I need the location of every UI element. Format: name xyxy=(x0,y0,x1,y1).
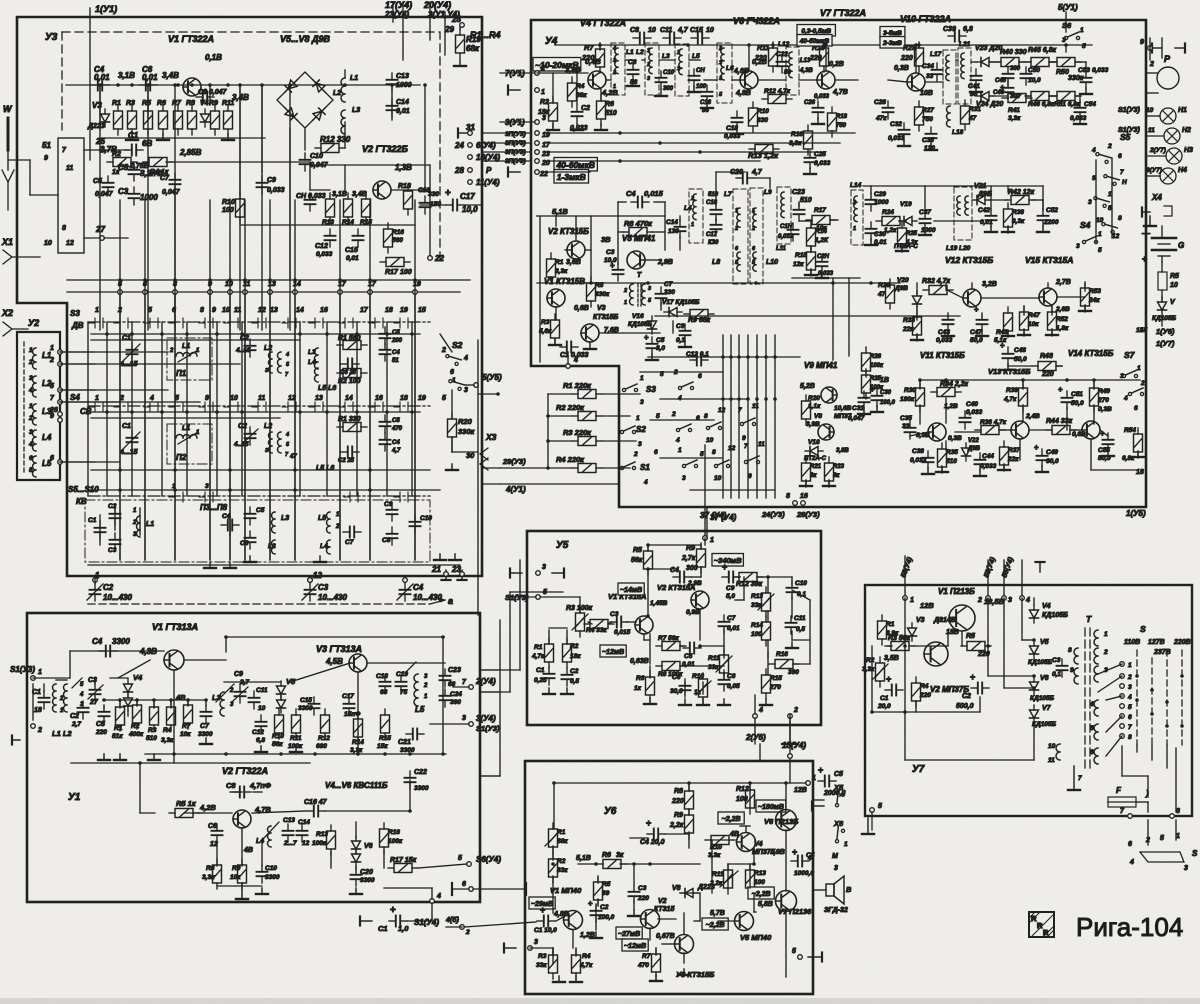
U3 verticals upper xyxy=(100,85,425,280)
res R52 1,8k xyxy=(1048,306,1071,336)
label V2 MP37B xyxy=(930,685,969,694)
coil L1 P1 xyxy=(169,343,200,362)
diode V6 pair xyxy=(352,836,373,867)
res R30 180k xyxy=(900,382,925,412)
res R4 220 U7 xyxy=(912,677,932,707)
label 4(U1) xyxy=(500,484,619,494)
cap C4 20,0 xyxy=(640,818,665,846)
transistor V5 xyxy=(735,912,754,931)
label V15 KT315A xyxy=(1025,255,1073,265)
terminal 7(U1) xyxy=(500,65,545,78)
V18 PTE2A-C cluster xyxy=(802,439,850,487)
label R1..R4 xyxy=(451,15,501,40)
cap C10 0,1 xyxy=(787,580,808,599)
label S1(U3) 11 xyxy=(1118,127,1141,134)
meter P xyxy=(1146,54,1179,89)
res R8 470k xyxy=(623,219,653,237)
variable capacitor С2 10..430 xyxy=(87,576,132,602)
switch S4 U4 xyxy=(1076,220,1102,254)
capacitor C9 0,033 xyxy=(257,176,285,194)
wire 2(U6) down xyxy=(759,744,761,761)
capacitor C3 1000 xyxy=(118,187,158,205)
label 1,2B xyxy=(944,403,958,410)
res R4 33k xyxy=(584,620,614,635)
label 3(U1,U4) xyxy=(428,10,460,55)
U7 label xyxy=(912,764,925,775)
cap C3 0,015 xyxy=(610,611,631,636)
label 0,4V xyxy=(585,57,601,66)
diode V19 xyxy=(899,217,917,226)
coil L5 P3 xyxy=(318,512,340,554)
label V1 MP40 xyxy=(550,886,582,895)
terminal 4 bottom xyxy=(430,888,441,903)
cap C8 10 xyxy=(630,27,656,44)
res R6 510 xyxy=(597,95,617,125)
wire 37(U4) down xyxy=(705,445,737,522)
transistor V4 U4 xyxy=(588,71,606,89)
label 0,67V xyxy=(656,933,675,940)
diode V4 KD105B xyxy=(1030,603,1069,623)
res R13 100k xyxy=(312,825,336,855)
coil L1 L2 L3 right xyxy=(333,70,360,134)
res R2 33k xyxy=(549,853,569,883)
cap C42 0,01 xyxy=(978,207,997,227)
label V1 GT313A xyxy=(152,622,198,632)
label V4..V6 KVS111B xyxy=(325,781,388,790)
label 2,85V xyxy=(179,148,202,157)
res R15 12k xyxy=(793,246,816,276)
trimmer C3 27 xyxy=(88,677,103,706)
res R11 220 xyxy=(754,42,778,72)
U1 c4 bus xyxy=(33,651,164,678)
cap C9 0,1 xyxy=(676,323,691,344)
diode V23 D20 xyxy=(975,45,1002,67)
variable capacitor С4 10..430 xyxy=(397,576,442,602)
boxed ~14mV xyxy=(618,583,644,595)
res R32 4,7k xyxy=(922,278,953,295)
label V7 GT322A xyxy=(820,8,866,18)
cap C43 0,033 xyxy=(936,313,954,344)
res R8 220 xyxy=(671,785,694,815)
IF transformer L1 L2 xyxy=(611,43,644,95)
wire gutter row 19 xyxy=(482,132,531,134)
res R45 6,8k xyxy=(1025,47,1057,67)
label 15(U4) xyxy=(782,714,806,761)
trim cap C9 2,7 xyxy=(233,671,249,703)
label 4,2V xyxy=(199,803,216,812)
res R9 2,7k xyxy=(681,543,706,573)
transistor V3 U4 xyxy=(581,324,619,342)
coil L1 P3 xyxy=(132,508,154,538)
wire gutter row 20 xyxy=(482,160,531,162)
transistor V2 U4 xyxy=(567,241,585,259)
cap C23 68 xyxy=(440,667,461,688)
U1 top agc line xyxy=(226,637,443,754)
capacitor C8 8,2pf xyxy=(118,163,163,181)
cap C1 10,0 xyxy=(534,905,557,934)
res R6 3k xyxy=(597,852,627,869)
label 2,7V xyxy=(99,145,117,154)
label S7 xyxy=(1124,350,1136,360)
res R5 330k xyxy=(587,277,610,307)
label 2b xyxy=(1149,61,1154,68)
label 3,9V xyxy=(565,65,581,74)
boxed ~27mV xyxy=(616,927,642,939)
Riga logo emblem xyxy=(1029,912,1054,937)
battery G xyxy=(1142,229,1184,264)
resistor R11 12к U3 row xyxy=(222,100,234,135)
wires right col xyxy=(1146,38,1166,176)
res R36 4,7k xyxy=(975,419,1007,435)
cap C4 P3 xyxy=(221,513,239,531)
IF transformer L5 xyxy=(675,44,700,96)
res R16 100k xyxy=(380,823,403,853)
U3 vertical drops full xyxy=(120,195,415,560)
switch S1 box xyxy=(42,137,128,253)
resistor R7 1к U3 row xyxy=(172,100,183,135)
label 5(U1) top xyxy=(1058,3,1078,32)
diode V5 xyxy=(277,677,297,713)
coils L3 L4 row1 xyxy=(308,348,318,382)
label V1 P213B U7 xyxy=(938,587,975,596)
wires U6 main xyxy=(530,783,786,977)
terminal 6 U2 xyxy=(50,455,62,464)
caps C9 C8 C10 P3 xyxy=(382,501,432,545)
label T xyxy=(637,272,642,279)
lamp H2 xyxy=(1148,127,1191,144)
label 4,7V xyxy=(254,805,271,814)
diode V6 KD105B xyxy=(1030,675,1055,702)
label 15 right edge xyxy=(1136,327,1144,334)
res R9 10k xyxy=(230,859,247,889)
row3 contacts xyxy=(169,483,408,502)
label 17(U4) 23(U4) xyxy=(384,0,412,60)
cap C35 120 xyxy=(922,127,937,152)
res R10 330 xyxy=(749,102,770,132)
wire U1 to U5 a xyxy=(480,669,500,671)
cap C20 4,7 xyxy=(730,169,763,184)
terminal 3 3(U4) xyxy=(430,714,500,733)
cap C16 56 xyxy=(700,85,713,114)
grounds U4 xyxy=(547,80,1144,486)
transistor V5 U4 xyxy=(627,251,645,269)
res R1 68k xyxy=(545,823,568,853)
terminal 16(U4) xyxy=(468,153,501,162)
res R2 18k xyxy=(538,97,558,127)
switch row S5 dashdot xyxy=(88,495,430,497)
cap C2 500,0 xyxy=(956,672,989,710)
cap C31 0,047 xyxy=(848,391,870,422)
cap C13 2,7 xyxy=(283,817,298,847)
terminal 2 U5 xyxy=(788,707,798,718)
boxed 0,3-0,5mV xyxy=(797,25,835,47)
switch S2 contacts right xyxy=(704,403,759,444)
coil L7 xyxy=(724,189,748,284)
label V3 KT315B xyxy=(593,305,618,321)
res R1 330 row2 xyxy=(337,416,367,432)
res R13 33k xyxy=(751,587,774,617)
U7 wires xyxy=(872,598,1034,760)
label 55(U4) x3 xyxy=(900,556,1015,579)
transistor V1 U7 xyxy=(949,605,975,631)
transistor V12 xyxy=(963,281,997,307)
connector X2 xyxy=(1,308,28,336)
res R1 3,9k xyxy=(878,615,900,645)
caps C5 C4 row2 xyxy=(338,415,403,464)
resistor R18 330 C16 150 xyxy=(398,183,441,215)
label V6 GT322A xyxy=(733,16,780,26)
transistor V2 U6 xyxy=(641,910,660,929)
U6 label xyxy=(604,806,617,817)
cap C28 47k xyxy=(874,99,894,122)
label V5 MP40 xyxy=(740,933,772,942)
res R5 1k xyxy=(169,799,199,818)
res R17 10k xyxy=(806,207,836,232)
diode V21 xyxy=(972,196,990,205)
cap C34 33 xyxy=(922,63,943,81)
label V4 MP37B xyxy=(752,841,776,856)
res R38 3,3k xyxy=(1004,203,1026,233)
label 4,3V xyxy=(139,647,157,656)
res R48 220 xyxy=(1032,353,1062,378)
terminals 1-4 U7 xyxy=(903,596,1030,604)
U4 V11 section wires xyxy=(910,380,1138,470)
terminal 1 bottom U3 xyxy=(95,571,100,580)
terminal 5 S6(U4) xyxy=(418,855,501,868)
winding 10 11 xyxy=(1048,743,1060,764)
resistor R17 100 xyxy=(380,258,412,277)
U1 comp row feeds xyxy=(104,700,206,708)
res R13 100 xyxy=(746,864,767,894)
ground row U3 xyxy=(126,134,234,140)
cap C44 0,033 xyxy=(975,453,997,471)
label 4V b xyxy=(243,847,253,854)
coil L14 xyxy=(850,182,863,245)
res R26 R25 100k xyxy=(862,347,885,399)
gutter vertical 478 xyxy=(477,340,479,615)
U4 row lines right xyxy=(545,133,855,172)
resistor R20 330k xyxy=(448,413,476,443)
cap C13 100 xyxy=(689,68,707,90)
coil L11 xyxy=(776,187,791,252)
pot R10 1k xyxy=(692,673,711,703)
label 3,4V xyxy=(162,71,179,80)
label 1,3V xyxy=(395,163,412,172)
transistor V2 xyxy=(373,181,391,199)
wire 1(U1) into U3 xyxy=(89,17,91,160)
terminal 1(U5) xyxy=(1126,509,1146,518)
res R7 470 xyxy=(637,948,661,978)
caps C12 C15 R16 xyxy=(315,223,404,262)
wire 29(U3) feed xyxy=(500,394,572,470)
U4 label xyxy=(545,36,558,47)
switch row S4 contacts xyxy=(89,402,408,412)
res R6 1k xyxy=(634,671,655,701)
wires U5 xyxy=(540,538,810,694)
res R27 750 xyxy=(915,101,935,131)
block U2 border xyxy=(17,332,60,480)
terminal 18 xyxy=(1136,469,1144,476)
cap C39 6,8 xyxy=(943,26,973,42)
transistor V6 big xyxy=(776,810,797,831)
resistor R6 7,5к U3 row xyxy=(157,100,168,135)
cap C7 0,01 xyxy=(719,615,741,633)
terminal 12 bottom U3 xyxy=(308,571,323,582)
cap C6 30,0 xyxy=(670,674,691,697)
label V3 D814B xyxy=(916,617,956,624)
res R19 220 xyxy=(809,42,829,72)
res R9 2,2k xyxy=(669,809,694,839)
res R39 4,7k xyxy=(1003,382,1028,412)
cap C6 12 xyxy=(208,823,223,848)
terminal 9 U2 xyxy=(50,413,62,422)
inductor L2 in U2 xyxy=(28,375,52,397)
transistor V13 xyxy=(1011,413,1040,439)
cap C15 10 xyxy=(690,27,714,44)
label V7 P213B xyxy=(778,907,812,916)
cap C14 130 xyxy=(666,219,686,238)
res R16 390 xyxy=(769,651,799,676)
U4 am if wires xyxy=(537,202,680,362)
boxed -2,2V xyxy=(718,812,744,824)
coil L19 L20 xyxy=(946,187,972,252)
U1 label xyxy=(68,792,81,803)
wires U7 xyxy=(872,598,988,830)
terminal 4 U5 xyxy=(753,695,763,718)
U3 wire 2,85V line xyxy=(166,162,310,190)
block U5 border xyxy=(527,531,821,725)
U6 ground row xyxy=(553,910,690,982)
res R8 3,3k xyxy=(202,859,222,889)
wire v1 bus xyxy=(66,84,420,86)
capacitor C1 6V xyxy=(125,131,152,156)
right col vertical feed xyxy=(1146,38,1162,326)
terminal 7 2(U4) xyxy=(453,677,496,689)
trimmer C1 row2 xyxy=(119,423,140,456)
terminal 22 xyxy=(428,254,445,263)
res R7 56k xyxy=(656,635,686,651)
terminal 11(U4) xyxy=(468,178,500,187)
switch row S4 dashdot xyxy=(88,405,430,407)
cap C5 0,01 xyxy=(682,643,701,669)
label 18,5V xyxy=(984,597,1005,606)
cap C19 75 xyxy=(396,671,409,696)
switch S7 contacts xyxy=(1120,365,1145,412)
res R2 400k xyxy=(128,699,144,738)
label V2 GT322A xyxy=(222,766,268,776)
label 18V xyxy=(946,629,959,636)
res R17 15k xyxy=(388,857,418,873)
U1 signal bus xyxy=(118,660,445,682)
res R29 47 xyxy=(877,279,895,309)
diode V20 D9V xyxy=(894,277,922,309)
cap C49 30,0 xyxy=(1034,443,1059,467)
switch row S3 dashdot xyxy=(88,321,430,323)
switch S1 contacts right xyxy=(712,441,765,482)
label 20(U4) xyxy=(423,0,451,40)
P1 dashed box xyxy=(167,338,212,380)
block U4 border xyxy=(531,20,1146,507)
cap C20 3300 xyxy=(351,868,375,886)
res R5 39 xyxy=(594,876,611,906)
connector X5 xyxy=(812,783,845,811)
res R34 2,2k xyxy=(931,381,969,397)
label 4,2V xyxy=(601,88,618,97)
terminal 28 P xyxy=(454,166,492,175)
terminals 8 16 bottom U4 xyxy=(761,493,820,519)
cap C9 5,0 xyxy=(722,562,740,600)
diode V24 D20 xyxy=(976,92,1003,109)
label 5(U5) xyxy=(465,373,502,387)
U4toU3 bottom links xyxy=(482,468,500,484)
pot R3 100k xyxy=(566,605,593,637)
terminal 5 U2 xyxy=(50,383,62,392)
label V3 GT313A xyxy=(316,644,362,654)
pins 1-8 list xyxy=(1120,662,1132,741)
res R9 68k xyxy=(684,310,714,325)
label 3,9V xyxy=(770,849,785,856)
switch row S3 contacts xyxy=(89,318,408,328)
cap C4 0,015 xyxy=(626,189,664,208)
terminal 3 U6 xyxy=(504,939,538,953)
coil L18 xyxy=(947,106,964,136)
U1 v2 verticals xyxy=(140,763,384,870)
label 0,63V xyxy=(630,658,649,665)
cap C6 56 xyxy=(628,59,639,86)
res R51 6,8k xyxy=(1051,92,1081,109)
capacitor C5 0,047 xyxy=(93,176,114,198)
gutter terminals 19 17 23 20 xyxy=(505,131,551,167)
coil L1 P2 xyxy=(176,425,200,444)
transistor V7 U4 xyxy=(817,61,848,96)
wire gutter row 23 xyxy=(482,151,531,153)
terminal 1 U2 xyxy=(50,345,62,354)
capacitor C10 0,047 xyxy=(300,153,329,171)
transistor V14 xyxy=(1072,421,1100,439)
cap C3 0,1 U7 xyxy=(1052,657,1068,678)
label V4 GT322A top xyxy=(580,18,626,28)
diode V16 KD105B xyxy=(628,313,657,334)
cap C5 2000,0 xyxy=(794,765,846,797)
res R2 3,3k pot xyxy=(862,657,888,687)
U2 inner dashed core xyxy=(23,342,25,472)
coils L2 row1 xyxy=(264,345,290,378)
res R14 100 xyxy=(751,616,771,646)
res R12 4,7k xyxy=(762,88,792,104)
label V1 KT315A xyxy=(608,592,668,607)
label 1(U7) xyxy=(1156,339,1175,348)
jack X4 xyxy=(1142,193,1172,226)
L5 L6 labels row2 xyxy=(289,454,334,472)
U3 S2 wires xyxy=(440,334,452,452)
cap C22 3300 xyxy=(405,769,429,792)
cap C3 220 xyxy=(629,885,650,903)
cap C1 0,25 xyxy=(534,667,555,685)
res R24 1,2k xyxy=(876,209,906,234)
lamp H3 xyxy=(1149,147,1193,164)
cap C19 0,033 xyxy=(778,223,799,241)
fuse F xyxy=(1108,786,1149,807)
cap C12 6,8 xyxy=(252,715,267,744)
row2 numbers xyxy=(95,395,426,402)
transistor V6 U4 xyxy=(740,59,767,89)
cap C7 330 xyxy=(656,281,676,305)
res R4 4,7k xyxy=(572,949,594,979)
transistor V1 xyxy=(183,78,201,96)
label 5,1V xyxy=(552,207,568,216)
diode V8 D223 xyxy=(672,884,715,898)
res R7 10k xyxy=(180,699,193,738)
